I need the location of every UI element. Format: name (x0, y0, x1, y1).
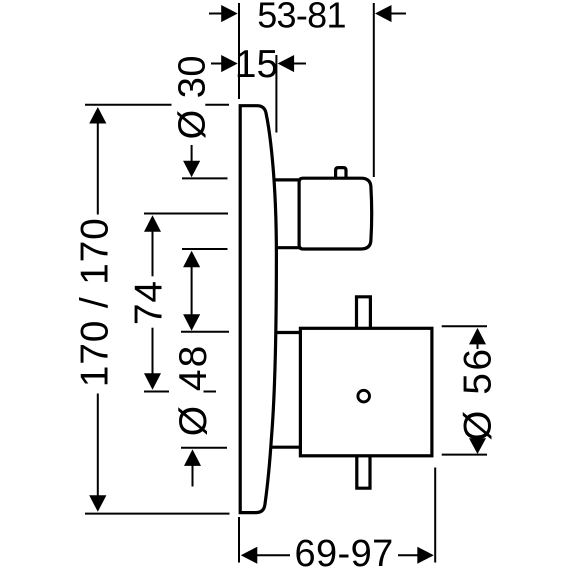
upper sleeve bottom line (270, 246, 301, 249)
dia30 down arrowhead (183, 161, 200, 178)
upper handle small tab (336, 168, 346, 178)
lower sleeve bottom line (270, 446, 302, 449)
74 bottom ext line left piece (144, 391, 169, 393)
69-97 right ext line (434, 468, 436, 563)
53-81 right arrowhead (375, 5, 392, 22)
53-81 left arrowhead (221, 5, 238, 22)
svg-text:15: 15 (235, 43, 278, 86)
15 left arrowhead (221, 55, 238, 72)
15 right extension line (275, 55, 277, 133)
170 up arrowhead (89, 107, 106, 124)
escutcheon plate (240, 106, 276, 513)
53-81 left arrow shaft (209, 13, 222, 15)
wall face extension line (238, 3, 240, 99)
74 dim line lower part (152, 328, 154, 374)
53-81 right arrow shaft (391, 13, 406, 15)
lower top tab (357, 297, 371, 329)
69-97 right shaft (398, 554, 432, 556)
lower bottom tab (357, 455, 370, 488)
lower square handle (300, 328, 432, 456)
dia56 bottom ext line (442, 454, 487, 456)
dia30 bottom ext line (handle bottom) (182, 248, 228, 250)
svg-text:Ø 56: Ø 56 (456, 346, 499, 441)
170 bottom ext line (85, 513, 230, 515)
69-97 left arrowhead (241, 547, 257, 564)
69-97 left ext line (238, 517, 240, 563)
svg-text:Ø 30: Ø 30 (171, 55, 213, 139)
170 down arrowhead (89, 495, 106, 512)
dia48 up arrowhead (184, 449, 201, 466)
170 dim line lower part (97, 394, 99, 497)
74 top ext line (144, 213, 228, 215)
dia56 upper arrow stub (477, 344, 479, 349)
74 bottom ext line right piece (204, 391, 217, 393)
170 top ext line right piece (205, 104, 229, 106)
center ring on square handle (358, 390, 370, 402)
69-97 left shaft (257, 554, 290, 556)
shared shaft between dia30 up arrow and dia48 down arrow (191, 267, 193, 315)
69-97 right arrowhead (417, 547, 434, 564)
dia48 bottom ext line (181, 447, 227, 449)
74 dim line upper part (152, 231, 154, 276)
15 right arrowhead (278, 55, 295, 72)
upper handle body (299, 178, 372, 249)
15 left arrow shaft (211, 63, 222, 65)
dia56 down arrowhead (469, 438, 486, 454)
dia48 bottom arrow shaft (192, 465, 194, 486)
svg-text:Ø 48: Ø 48 (172, 344, 215, 437)
lower sleeve top line (270, 331, 302, 334)
dia48 top ext line (181, 331, 229, 333)
170 dim line upper part (97, 123, 99, 215)
dia56 up arrowhead (469, 328, 486, 345)
15 right arrow shaft (294, 63, 306, 65)
dia56 top ext line (442, 325, 487, 327)
74 up arrowhead (144, 215, 161, 232)
dia30 down arrow shaft (191, 145, 193, 162)
dia30 up arrowhead (183, 251, 200, 268)
svg-text:170 / 170: 170 / 170 (74, 217, 117, 387)
upper sleeve top line (270, 178, 301, 181)
dia30 top ext line (handle top) (182, 177, 228, 179)
53-81 right extension line (373, 3, 375, 177)
dia48 down arrowhead (183, 314, 200, 331)
170 top ext line left piece (85, 104, 172, 106)
svg-text:53-81: 53-81 (257, 0, 346, 36)
svg-text:74: 74 (128, 280, 171, 325)
74 down arrowhead (144, 373, 161, 390)
svg-text:69-97: 69-97 (294, 533, 393, 568)
